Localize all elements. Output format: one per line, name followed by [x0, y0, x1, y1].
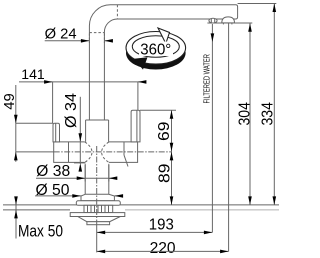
riser step shoulder — [86, 119, 109, 121]
filtered water nozzle — [209, 18, 217, 23]
svg-text:220: 220 — [150, 240, 176, 257]
svg-text:89: 89 — [156, 163, 173, 183]
dimension 69 — [140, 110, 176, 205]
svg-text:Ø 24: Ø 24 — [45, 26, 77, 43]
svg-text:193: 193 — [149, 216, 174, 233]
aerator outlet dome — [222, 17, 235, 25]
svg-text:141: 141 — [21, 66, 45, 82]
body barrel — [85, 120, 87, 142]
svg-text:334: 334 — [259, 102, 276, 126]
clamp plate — [70, 213, 125, 217]
dimension 304 — [237, 23, 254, 205]
360° swivel icon — [126, 28, 186, 70]
counter surface line — [3, 204, 279, 206]
dimension 89 — [156, 152, 173, 205]
shank bell — [81, 194, 114, 201]
dimension Ø38 — [36, 163, 117, 182]
vertical centerline — [96, 146, 98, 225]
clamp skirt — [78, 217, 121, 222]
dimension 220 — [97, 23, 229, 257]
shank through counter (ticked) — [84, 205, 113, 212]
escutcheon plate — [76, 201, 120, 206]
dimension 193 — [97, 216, 213, 252]
spout top extension line — [238, 3, 277, 5]
outlet base extension line — [207, 22, 252, 24]
svg-text:Max 50: Max 50 — [18, 223, 63, 241]
dimension 334 — [259, 4, 276, 205]
dimension 141 — [19, 66, 146, 124]
svg-text:69: 69 — [156, 121, 173, 141]
svg-text:304: 304 — [237, 102, 254, 126]
filtered water label — [202, 24, 215, 232]
svg-text:Ø 50: Ø 50 — [36, 182, 70, 199]
shank — [84, 164, 86, 195]
dimension 49 — [1, 85, 54, 162]
counter underside line — [3, 209, 70, 211]
dimension Ø50 — [35, 182, 123, 199]
bend tangent dashes — [116, 5, 118, 19]
shank bottom stub — [87, 222, 110, 225]
dimension Ø34 — [63, 93, 86, 172]
svg-text:FILTERED WATER: FILTERED WATER — [202, 54, 212, 104]
svg-text:360°: 360° — [140, 42, 171, 59]
dimension Max 50 — [14, 196, 63, 240]
svg-text:Ø 34: Ø 34 — [63, 93, 80, 128]
left boss arc (dashed) — [85, 142, 92, 163]
left valve body — [54, 142, 85, 163]
right lever — [131, 110, 140, 142]
svg-text:Ø 38: Ø 38 — [36, 163, 70, 180]
right boss arc (dashed) — [102, 142, 109, 163]
right valve body — [109, 142, 138, 167]
left lever — [53, 123, 60, 142]
spout tube (riser, bend, horizontal arm) — [89, 5, 237, 120]
dimension Ø24 — [45, 26, 113, 43]
valve axis centerline — [54, 151, 172, 153]
